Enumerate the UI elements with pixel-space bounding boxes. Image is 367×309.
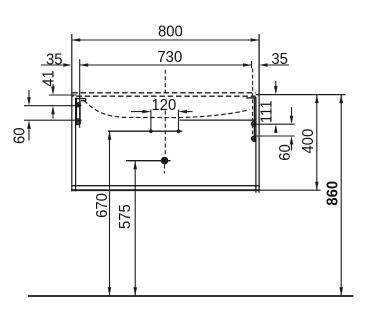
left bracket screw 2 [76, 119, 80, 123]
label 800 [158, 23, 183, 41]
svg-text:860: 860 [324, 181, 342, 206]
svg-text:60: 60 [11, 127, 29, 144]
left mounting bracket [76, 99, 86, 125]
faucet hole dot right [177, 129, 181, 133]
svg-text:575: 575 [117, 204, 135, 229]
dim 35 right [259, 63, 289, 67]
label 575 [117, 204, 135, 229]
dim 60 right (vertical) [254, 107, 295, 151]
dim 860 (right, vertical) [339, 95, 343, 296]
label 670 [93, 193, 111, 218]
cabinet bottom extension line (right) [260, 189, 321, 191]
cabinet right side panel / extension line [256, 34, 259, 193]
cabinet bottom shelf [71, 186, 259, 191]
label 730 [157, 49, 182, 67]
dim 111 (right, vertical) [254, 81, 295, 133]
label 35 left [46, 51, 63, 69]
drain centerline (dashed vertical) [164, 70, 167, 174]
svg-text:41: 41 [40, 70, 58, 87]
label 60 right [276, 144, 294, 161]
dim 60 left (vertical) [24, 90, 82, 141]
faucet hole dot left [149, 129, 153, 133]
dim 35 left [41, 63, 72, 67]
dim 400 (right, vertical) [315, 95, 319, 191]
label 41 [40, 70, 58, 87]
washbasin top edges (hidden, dashed) [72, 93, 256, 96]
label 111 [258, 100, 276, 123]
svg-text:400: 400 [299, 129, 317, 154]
dim 800 line [72, 38, 259, 42]
basin right edge (hidden, dashed vertical) [252, 69, 254, 141]
dim 41 (left, vertical) [49, 84, 77, 119]
floor line [28, 295, 354, 297]
drain hole (filled dot) [161, 157, 169, 165]
svg-text:111: 111 [258, 100, 276, 123]
svg-text:60: 60 [276, 144, 294, 161]
drain hole line [126, 160, 171, 162]
right mounting bracket [246, 98, 256, 141]
faucet hole line [108, 130, 182, 132]
svg-text:670: 670 [93, 193, 111, 218]
label 60 left [11, 127, 29, 144]
right bracket screw 2 [251, 136, 255, 140]
label 35 right [271, 50, 288, 68]
svg-text:35: 35 [271, 50, 288, 68]
dim 730 line [80, 59, 252, 128]
label 120 [151, 96, 176, 114]
dim 670 (vertical) [108, 131, 112, 296]
svg-text:800: 800 [158, 23, 183, 41]
label 400 [299, 129, 317, 154]
svg-text:35: 35 [46, 51, 63, 69]
left bracket screw 1 [76, 103, 80, 107]
svg-text:730: 730 [157, 49, 182, 67]
dim 120 (faucet holes) [131, 110, 193, 132]
label 860 (bold) [324, 181, 342, 206]
cabinet left side panel / extension line [72, 34, 76, 192]
basin rear shelf edge (solid, right) [180, 119, 256, 121]
right bracket screw 1 [251, 122, 255, 126]
svg-text:120: 120 [151, 96, 176, 114]
washbasin bowl outline (hidden, dashed) [84, 100, 250, 117]
dim 575 (vertical) [133, 161, 137, 296]
basin top extension line (right, long) [256, 94, 346, 96]
